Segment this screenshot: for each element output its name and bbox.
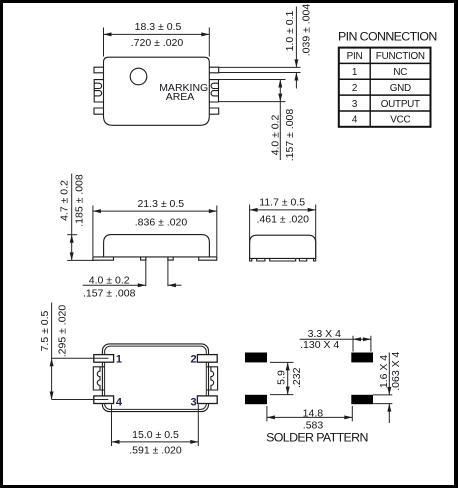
solder pad bottom-right [351,395,373,404]
svg-text:.836 ± .020: .836 ± .020 [135,217,188,229]
svg-text:.039 ± .004: .039 ± .004 [300,4,312,57]
side view center tab right [168,257,173,260]
svg-text:.232: .232 [291,367,303,388]
solder pattern label [266,430,368,444]
top view right castellation [209,80,218,102]
table grid [339,48,431,127]
svg-text:2: 2 [352,83,357,94]
bottom view right castellation [207,367,218,390]
bottom view pad 4 [94,396,114,404]
svg-text:.063 X 4: .063 X 4 [390,351,402,390]
svg-text:21.3 ± 0.5: 21.3 ± 0.5 [137,198,184,210]
side view body profile [93,235,217,257]
dimension 5.9 / .232 (solder pads vertical pitch) [270,362,303,394]
svg-text:4: 4 [116,396,123,408]
svg-text:.130 X 4: .130 X 4 [300,339,339,351]
bottom view pad 3 [197,396,217,404]
bottom view body outer outline [102,344,208,412]
svg-text:.461 ± .020: .461 ± .020 [257,213,310,225]
dimension 15.0 +/- 0.5 / .591 +/- .020 (bottom view bottom) [112,405,199,457]
svg-text:4.7 ± 0.2: 4.7 ± 0.2 [58,180,70,221]
svg-text:.185 ± .008: .185 ± .008 [74,174,86,227]
dimension 1.0 +/- 0.1 / .039 +/- .004 (lead thickness, right of top view) [219,4,313,89]
svg-text:NC: NC [393,67,407,78]
table title [338,30,437,44]
end view body profile [250,235,316,258]
svg-text:.157 ± .008: .157 ± .008 [83,288,136,300]
marking area text [159,82,208,103]
side view left foot lead [93,257,114,260]
svg-text:4.0 ± 0.2: 4.0 ± 0.2 [89,274,130,286]
top view left lead 4 (bottom tab) [94,108,104,114]
solder pad bottom-left [245,395,267,404]
svg-text:4: 4 [352,115,358,126]
bottom view pin numbers [116,353,197,408]
dimension 4.0 +/- 0.2 / .157 +/- .008 (side view bottom center) [83,259,182,300]
top view body outline [104,57,210,125]
table cells [347,51,425,125]
svg-text:1.6 X 4: 1.6 X 4 [378,355,390,388]
dimension 4.7 +/- 0.2 / .185 +/- .008 (side view left) [58,174,94,261]
svg-text:1: 1 [352,67,358,78]
svg-text:.720 ± .020: .720 ± .020 [131,37,184,49]
dimension 18.3 +/- 0.5 / .720 +/- .020 (top) [104,21,210,57]
dimension 1.6 X 4 / .063 X 4 (solder pad height) [373,351,402,423]
svg-text:2: 2 [191,353,197,365]
dimension 21.3 +/- 0.5 / .836 +/- .020 (side view top) [93,198,217,257]
bottom view pad 1 [94,355,114,363]
svg-text:GND: GND [390,83,411,94]
dimension 14.8 / .583 (solder pads horizontal gap) [267,406,352,432]
svg-text:1: 1 [116,353,122,365]
top view left castellation [94,80,103,102]
svg-text:3: 3 [191,396,197,408]
dimension 3.3 X 4 / .130 X 4 (solder pad width) [300,328,371,352]
side view center tab left [141,257,146,260]
svg-text:OUTPUT: OUTPUT [381,99,420,110]
end view feet [250,258,316,261]
bottom view left castellation [93,367,104,390]
bottom view pad 2 [197,355,217,363]
svg-text:5.9: 5.9 [275,370,287,385]
top view right lead 3 (bottom tab) [209,108,218,114]
side view right foot lead [199,257,217,260]
svg-text:11.7 ± 0.5: 11.7 ± 0.5 [259,197,305,209]
svg-text:.157 ± .008: .157 ± .008 [284,109,296,162]
svg-text:15.0 ± 0.5: 15.0 ± 0.5 [132,429,179,441]
dimension 7.5 +/- 0.5 / .295 +/- .020 (bottom view left) [39,303,109,400]
top view left lead 1 (top tab) [94,67,104,73]
top view right lead 2 (top tab) [209,67,218,73]
svg-text:SOLDER PATTERN: SOLDER PATTERN [266,430,368,444]
svg-text:PIN: PIN [347,51,363,62]
svg-text:PIN CONNECTION: PIN CONNECTION [338,30,437,44]
svg-text:.591 ± .020: .591 ± .020 [129,445,182,457]
solder pad top-left [245,353,267,363]
svg-text:7.5 ± 0.5: 7.5 ± 0.5 [39,310,51,351]
svg-text:1.0 ± 0.1: 1.0 ± 0.1 [284,10,296,51]
svg-text:18.3 ± 0.5: 18.3 ± 0.5 [135,21,182,33]
dimension 11.7 +/- 0.5 / .461 +/- .020 (end view) [250,197,316,259]
pin 1 indicator circle [130,68,147,85]
svg-text:3: 3 [352,99,358,110]
svg-text:4.0 ± 0.2: 4.0 ± 0.2 [269,114,281,155]
svg-text:.295 ± .020: .295 ± .020 [57,305,69,358]
solder pad top-right [351,353,373,363]
dimension 4.0 +/- 0.2 / .157 +/- .008 (right of top view) [219,80,296,162]
svg-text:AREA: AREA [166,91,195,103]
svg-text:VCC: VCC [390,115,410,126]
svg-text:14.8: 14.8 [303,407,324,419]
svg-text:FUNCTION: FUNCTION [376,51,425,62]
